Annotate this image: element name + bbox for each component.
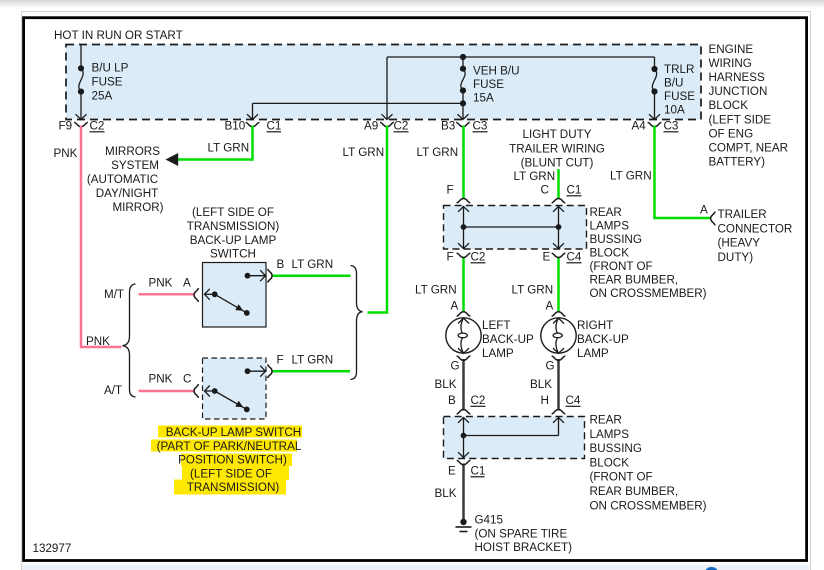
svg-text:HOT IN RUN OR START: HOT IN RUN OR START <box>54 29 183 42</box>
svg-text:REAR: REAR <box>590 414 622 427</box>
svg-text:LT GRN: LT GRN <box>417 146 459 159</box>
svg-text:LAMPS: LAMPS <box>590 220 630 233</box>
svg-text:HOIST BRACKET): HOIST BRACKET) <box>475 541 573 554</box>
svg-text:132977: 132977 <box>33 542 72 555</box>
svg-text:OF ENG: OF ENG <box>709 127 754 140</box>
svg-text:F: F <box>447 251 454 264</box>
svg-text:TRANSMISSION): TRANSMISSION) <box>187 481 280 494</box>
svg-text:HARNESS: HARNESS <box>709 71 766 84</box>
svg-text:LIGHT DUTY: LIGHT DUTY <box>523 128 592 141</box>
svg-text:A9: A9 <box>364 120 378 133</box>
svg-text:LT GRN: LT GRN <box>514 170 556 183</box>
svg-text:LT GRN: LT GRN <box>512 284 554 297</box>
svg-text:TRAILER WIRING: TRAILER WIRING <box>509 142 605 155</box>
svg-text:MIRRORS: MIRRORS <box>105 145 160 158</box>
svg-text:FUSE: FUSE <box>473 78 504 91</box>
svg-text:BLOCK: BLOCK <box>590 456 630 469</box>
svg-text:B: B <box>448 394 456 407</box>
svg-text:BACK-UP: BACK-UP <box>577 333 629 346</box>
svg-text:A: A <box>183 277 191 290</box>
svg-text:A: A <box>700 204 708 217</box>
svg-text:B3: B3 <box>441 120 455 133</box>
svg-text:10A: 10A <box>664 104 685 117</box>
svg-text:C4: C4 <box>567 251 582 264</box>
svg-text:C1: C1 <box>471 465 486 478</box>
svg-text:(FRONT OF: (FRONT OF <box>590 260 653 273</box>
svg-text:(ON SPARE TIRE: (ON SPARE TIRE <box>475 528 568 541</box>
svg-text:FUSE: FUSE <box>92 76 123 89</box>
svg-text:C2: C2 <box>471 394 486 407</box>
svg-text:15A: 15A <box>473 92 494 105</box>
svg-text:COMPT, NEAR: COMPT, NEAR <box>709 142 789 155</box>
svg-text:BLK: BLK <box>435 487 457 500</box>
svg-text:C1: C1 <box>267 120 282 133</box>
svg-text:A: A <box>546 300 554 313</box>
svg-text:C: C <box>183 373 191 386</box>
svg-text:BUSSING: BUSSING <box>590 442 642 455</box>
svg-text:C3: C3 <box>473 120 488 133</box>
svg-text:F: F <box>447 184 454 197</box>
svg-text:PNK: PNK <box>149 277 173 290</box>
svg-text:(LEFT SIDE OF: (LEFT SIDE OF <box>192 206 274 219</box>
svg-text:BATTERY): BATTERY) <box>709 156 766 169</box>
svg-text:C4: C4 <box>566 394 581 407</box>
svg-text:REAR BUMBER,: REAR BUMBER, <box>590 485 679 498</box>
svg-text:POSITION SWITCH): POSITION SWITCH) <box>178 454 287 467</box>
svg-text:A4: A4 <box>632 120 647 133</box>
svg-text:LT GRN: LT GRN <box>415 284 457 297</box>
svg-text:REAR BUMBER,: REAR BUMBER, <box>590 274 679 287</box>
svg-text:RIGHT: RIGHT <box>577 319 613 332</box>
svg-text:SWITCH: SWITCH <box>210 248 256 261</box>
svg-text:B/U: B/U <box>664 76 683 89</box>
svg-text:C2: C2 <box>394 120 409 133</box>
svg-text:LT GRN: LT GRN <box>610 170 652 183</box>
svg-text:H: H <box>541 394 549 407</box>
svg-text:E: E <box>543 251 551 264</box>
svg-text:25A: 25A <box>92 90 113 103</box>
svg-text:BACK-UP LAMP SWITCH: BACK-UP LAMP SWITCH <box>166 426 301 439</box>
svg-text:G: G <box>546 360 555 373</box>
svg-text:C1: C1 <box>567 184 582 197</box>
svg-text:LAMP: LAMP <box>482 347 514 360</box>
svg-text:G: G <box>451 360 460 373</box>
svg-text:LT GRN: LT GRN <box>343 146 385 159</box>
svg-text:BLK: BLK <box>530 378 552 391</box>
svg-text:B: B <box>277 258 285 271</box>
svg-text:A: A <box>451 300 459 313</box>
svg-text:ON CROSSMEMBER): ON CROSSMEMBER) <box>590 499 707 512</box>
svg-text:LT GRN: LT GRN <box>208 142 250 155</box>
svg-text:REAR: REAR <box>590 206 622 219</box>
svg-text:ON CROSSMEMBER): ON CROSSMEMBER) <box>590 287 707 300</box>
svg-text:LEFT: LEFT <box>482 319 510 332</box>
svg-text:JUNCTION: JUNCTION <box>709 85 768 98</box>
svg-text:WIRING: WIRING <box>709 57 752 70</box>
svg-text:B10: B10 <box>225 120 246 133</box>
svg-text:TRANSMISSION): TRANSMISSION) <box>187 220 280 233</box>
svg-text:VEH B/U: VEH B/U <box>473 65 520 78</box>
svg-text:A/T: A/T <box>104 384 122 397</box>
svg-text:(AUTOMATIC: (AUTOMATIC <box>87 173 158 186</box>
svg-text:BLOCK: BLOCK <box>709 99 749 112</box>
svg-text:M/T: M/T <box>104 288 124 301</box>
svg-text:LAMP: LAMP <box>577 347 609 360</box>
svg-text:(BLUNT CUT): (BLUNT CUT) <box>521 157 594 170</box>
svg-text:BLK: BLK <box>435 378 457 391</box>
svg-text:F: F <box>277 354 284 367</box>
svg-text:ENGINE: ENGINE <box>709 43 754 56</box>
svg-text:DUTY): DUTY) <box>718 251 754 264</box>
svg-text:LAMPS: LAMPS <box>590 428 630 441</box>
svg-text:PNK: PNK <box>54 147 78 160</box>
svg-text:(FRONT OF: (FRONT OF <box>590 471 653 484</box>
svg-text:C3: C3 <box>664 120 679 133</box>
svg-text:CONNECTOR: CONNECTOR <box>718 222 793 235</box>
svg-text:LT GRN: LT GRN <box>292 354 334 367</box>
svg-text:B/U LP: B/U LP <box>92 62 129 75</box>
svg-text:FUSE: FUSE <box>664 90 695 103</box>
svg-text:BACK-UP LAMP: BACK-UP LAMP <box>190 234 277 247</box>
svg-text:DAY/NIGHT: DAY/NIGHT <box>96 187 159 200</box>
svg-text:BLOCK: BLOCK <box>590 247 630 260</box>
svg-text:PNK: PNK <box>149 373 173 386</box>
svg-text:LT GRN: LT GRN <box>292 258 334 271</box>
svg-text:(PART OF PARK/NEUTRAL: (PART OF PARK/NEUTRAL <box>157 440 302 453</box>
svg-text:SYSTEM: SYSTEM <box>111 159 159 172</box>
svg-text:(HEAVY: (HEAVY <box>718 237 761 250</box>
svg-text:F9: F9 <box>59 120 73 133</box>
svg-text:(LEFT SIDE OF: (LEFT SIDE OF <box>190 467 272 480</box>
svg-text:BUSSING: BUSSING <box>590 233 642 246</box>
svg-text:C2: C2 <box>471 251 486 264</box>
svg-text:E: E <box>448 465 456 478</box>
svg-text:TRLR: TRLR <box>664 63 694 76</box>
svg-text:(LEFT SIDE: (LEFT SIDE <box>709 113 772 126</box>
svg-text:MIRROR): MIRROR) <box>112 201 163 214</box>
svg-text:C: C <box>541 184 549 197</box>
svg-text:BACK-UP: BACK-UP <box>482 333 534 346</box>
svg-text:G415: G415 <box>475 514 503 527</box>
svg-text:TRAILER: TRAILER <box>718 208 767 221</box>
svg-text:PNK: PNK <box>86 335 110 348</box>
svg-text:C2: C2 <box>90 120 105 133</box>
